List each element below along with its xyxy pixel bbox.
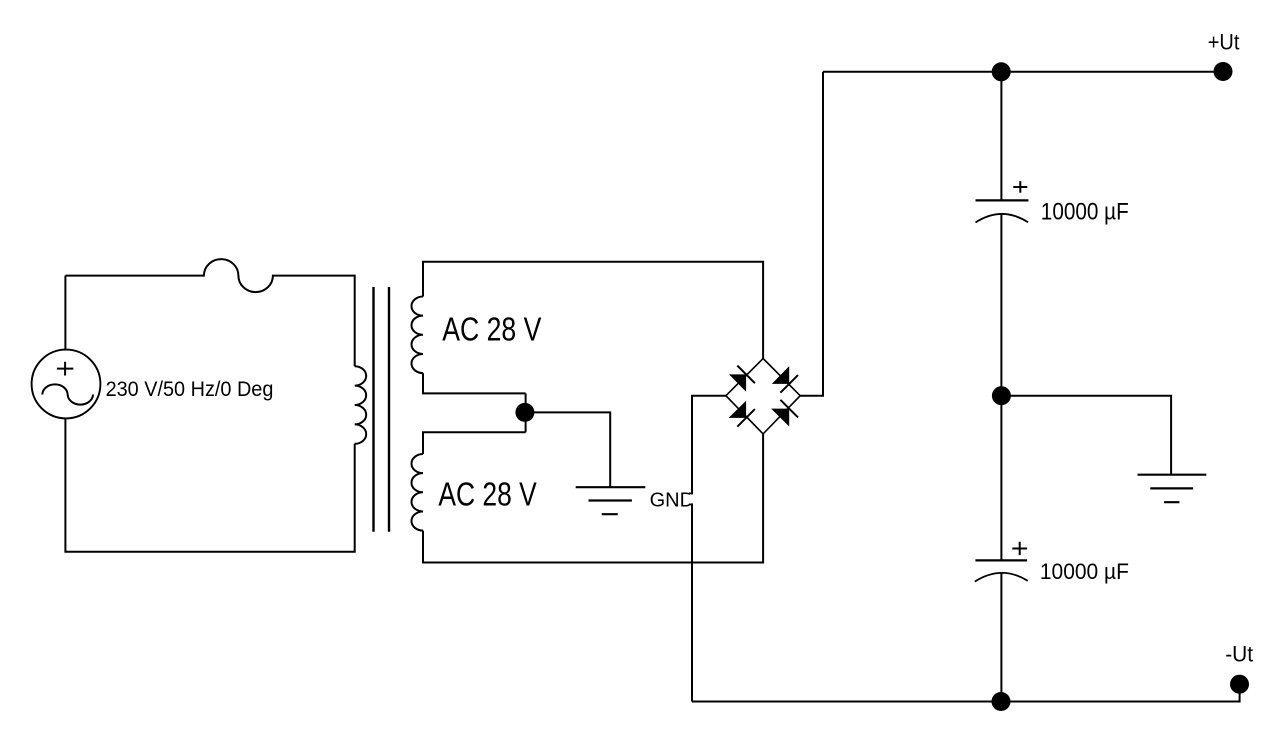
svg-text:-Ut: -Ut: [1225, 641, 1253, 666]
svg-text:AC 28 V: AC 28 V: [442, 310, 541, 347]
svg-text:10000 µF: 10000 µF: [1041, 199, 1129, 226]
svg-text:10000 µF: 10000 µF: [1040, 559, 1129, 584]
svg-text:GND: GND: [650, 490, 694, 512]
svg-text:230 V/50 Hz/0 Deg: 230 V/50 Hz/0 Deg: [106, 378, 274, 401]
svg-text:+Ut: +Ut: [1208, 30, 1240, 55]
svg-text:AC 28 V: AC 28 V: [438, 475, 536, 512]
